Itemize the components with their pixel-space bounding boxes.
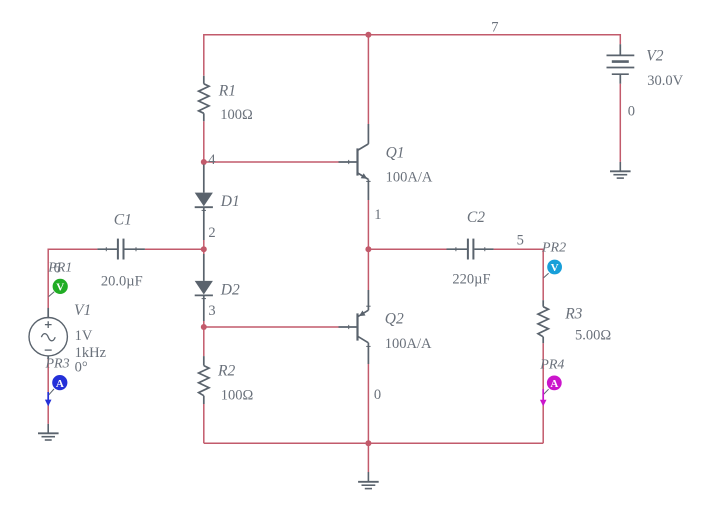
svg-text:PR2: PR2 [541,240,566,255]
svg-text:5: 5 [517,232,524,248]
wire: Q1 emitter to node 1 [367,200,369,249]
svg-text:0: 0 [628,104,635,120]
capacitor C2 [447,239,494,260]
wire: R1 bottom to node 4 [203,121,205,164]
junction: node 2 [201,246,207,252]
svg-text:R3: R3 [564,306,582,323]
svg-text:V1: V1 [74,302,91,319]
wire: C2 to node 5 corner down right branch [494,249,544,300]
svg-text:PR4: PR4 [539,357,564,372]
svg-text:220µF: 220µF [452,272,490,288]
PR4 current direction arrow [540,389,547,406]
diode D1 [195,165,213,241]
wire: node 1 to Q2 emitter [367,249,369,290]
svg-text:0°: 0° [75,359,88,375]
svg-text:1: 1 [374,207,381,223]
probe PR1 voltage [49,279,68,297]
wire: C1 row from V1 branch to node 2 [48,249,97,308]
voltage source V1 [29,308,67,359]
svg-text:1kHz: 1kHz [75,345,107,361]
svg-text:100A/A: 100A/A [386,170,433,186]
resistor R2 [199,356,209,404]
svg-text:7: 7 [491,19,498,35]
wire: R3 bottom to bottom bus [542,343,544,443]
svg-text:D1: D1 [220,193,240,210]
junction: node 3 [201,324,207,330]
wire: D2 cathode through node 3 to R2 top [203,321,205,356]
svg-text:0: 0 [374,387,381,403]
svg-text:100Ω: 100Ω [220,107,253,123]
wire: Q1 collector drop from top bus [367,35,369,124]
ground: left under V1 [38,424,59,440]
probe PR2 voltage [544,260,562,278]
wire: top bus net 7 with R1 drop and V2 drop [204,35,621,76]
battery V2 [607,44,635,84]
svg-text:5.00Ω: 5.00Ω [575,328,611,344]
wire: node 3 row to Q2 base [204,326,339,328]
wire: center ground drop [367,443,369,472]
svg-text:C1: C1 [114,211,132,228]
svg-text:4: 4 [208,152,216,168]
svg-text:PR3: PR3 [45,356,70,371]
svg-text:30.0V: 30.0V [647,73,683,89]
ground: under V2 [610,162,631,178]
transistor Q2 [339,290,371,364]
transistor Q1 [339,124,371,200]
svg-text:V2: V2 [646,47,663,64]
junction: top bus / Q1 collector [365,32,371,38]
svg-text:V: V [551,262,559,274]
svg-text:2: 2 [208,225,215,241]
svg-text:1V: 1V [75,328,93,344]
wire: bottom bus [204,442,543,444]
svg-text:C2: C2 [467,209,485,226]
svg-text:100Ω: 100Ω [221,387,254,403]
ground: center [358,472,379,489]
junction: bottom bus / center ground [365,440,371,446]
svg-text:R2: R2 [217,362,235,379]
svg-text:Q1: Q1 [386,145,405,162]
resistor R3 [538,300,548,343]
wire: V2 to ground [619,84,621,162]
svg-text:20.0µF: 20.0µF [101,273,143,289]
wire: R2 bottom to bottom bus [203,404,205,443]
PR3 current direction arrow [45,392,52,406]
svg-text:PR1: PR1 [47,261,72,276]
wire: Q2 collector to bottom bus [367,364,369,443]
junction: node 4 [201,159,207,165]
svg-text:Q2: Q2 [385,310,404,327]
diode D2 [195,254,213,321]
wire: node 4 row to Q1 base [204,161,339,163]
wire: D1 cathode to node 2 [203,240,205,254]
svg-text:A: A [56,378,64,390]
wire: node 1 row from Q1 emitter to C2 [368,248,446,250]
svg-text:D2: D2 [220,281,240,298]
svg-text:100A/A: 100A/A [385,336,432,352]
resistor R1 [199,76,209,121]
capacitor C1 [97,239,144,260]
svg-text:A: A [550,378,558,390]
probe PR3 current [49,375,68,395]
svg-text:V: V [56,282,64,294]
wire: V1 bottom to ground [47,359,49,424]
junction: node 1 [365,246,371,252]
svg-text:R1: R1 [218,82,236,99]
svg-text:3: 3 [208,303,215,319]
probe PR4 current [543,376,561,395]
